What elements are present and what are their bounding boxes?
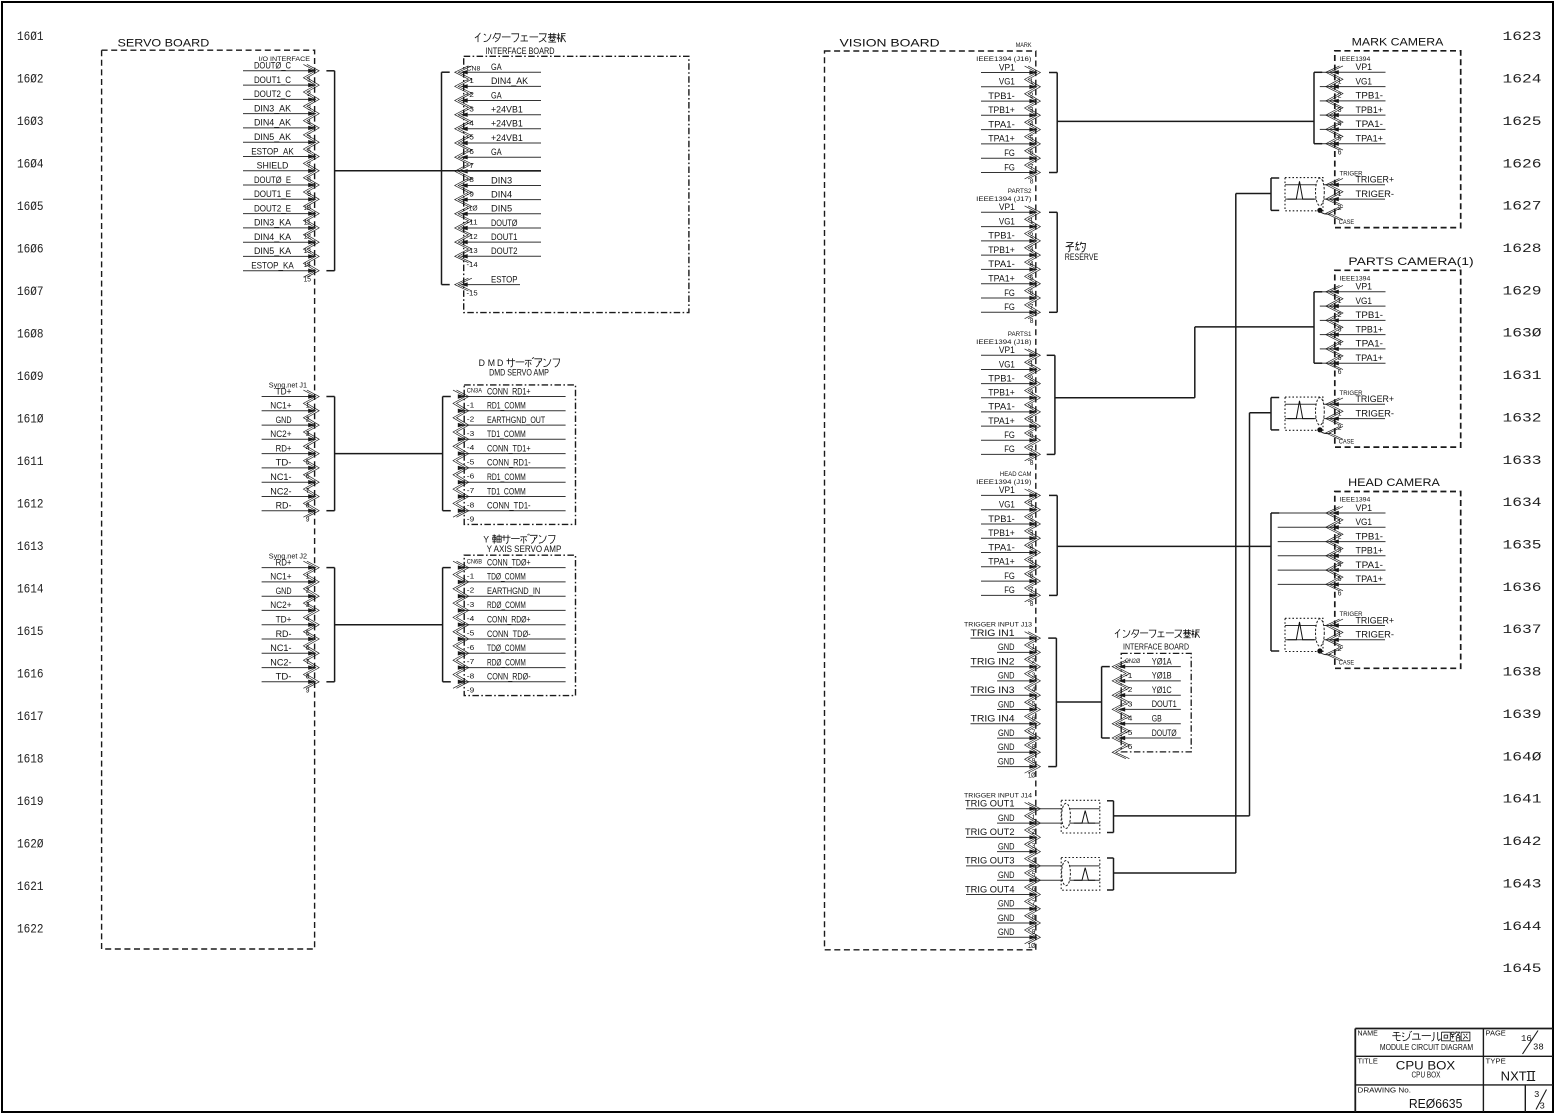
svg-text:TRIG IN1: TRIG IN1 <box>971 628 1015 638</box>
svg-text:-7: -7 <box>467 486 474 495</box>
svg-text:CONN_TD1+: CONN_TD1+ <box>487 443 531 453</box>
svg-text:GND: GND <box>998 671 1015 681</box>
svg-text:1Ø: 1Ø <box>1028 770 1036 779</box>
svg-text:1624: 1624 <box>1503 72 1542 87</box>
svg-text:TPA1+: TPA1+ <box>988 274 1015 284</box>
svg-text:GND: GND <box>998 728 1015 738</box>
svg-text:1642: 1642 <box>1503 834 1542 849</box>
svg-text:1636: 1636 <box>1503 580 1542 595</box>
svg-text:TPB1+: TPB1+ <box>988 388 1015 398</box>
svg-text:TPA1-: TPA1- <box>988 259 1015 269</box>
svg-text:TPA1+: TPA1+ <box>988 416 1015 426</box>
svg-text:GND: GND <box>276 586 292 596</box>
svg-text:CONN_TD1-: CONN_TD1- <box>487 501 531 511</box>
svg-text:VG1: VG1 <box>999 77 1015 87</box>
svg-text:TPB1+: TPB1+ <box>988 528 1015 538</box>
svg-text:TPA1+: TPA1+ <box>988 557 1015 567</box>
svg-text:CONN_RD1+: CONN_RD1+ <box>487 386 531 396</box>
svg-text:VP1: VP1 <box>1356 282 1373 293</box>
svg-text:NC2+: NC2+ <box>270 429 291 439</box>
svg-text:DOUT1_E: DOUT1_E <box>254 189 291 199</box>
svg-text:SERVO BOARD: SERVO BOARD <box>118 37 210 49</box>
svg-text:-7: -7 <box>467 161 474 170</box>
svg-text:-5: -5 <box>467 457 474 466</box>
svg-text:GND: GND <box>998 913 1015 923</box>
svg-text:HEAD CAM: HEAD CAM <box>1000 471 1032 478</box>
svg-text:GND: GND <box>998 899 1015 909</box>
svg-text:CN3A: CN3A <box>467 388 483 395</box>
svg-text:3: 3 <box>1534 1090 1539 1100</box>
svg-text:-8: -8 <box>467 500 474 509</box>
svg-text:-6: -6 <box>467 643 474 652</box>
svg-text:REØ6635: REØ6635 <box>1409 1096 1463 1111</box>
svg-text:-7: -7 <box>467 657 474 666</box>
svg-text:-1: -1 <box>467 76 474 85</box>
svg-text:D: D <box>479 358 485 368</box>
svg-text:FG: FG <box>1004 585 1015 595</box>
svg-text:16Ø7: 16Ø7 <box>17 284 44 299</box>
svg-text:3: 3 <box>1540 1102 1545 1112</box>
svg-text:-8: -8 <box>467 175 474 184</box>
svg-text:GA: GA <box>491 90 502 100</box>
svg-text:RD-: RD- <box>276 629 292 639</box>
svg-text:TPB1+: TPB1+ <box>1356 546 1384 557</box>
svg-text:TD-: TD- <box>276 672 292 682</box>
svg-text:TPB1-: TPB1- <box>988 91 1015 101</box>
svg-text:TD1_COMM: TD1_COMM <box>487 429 526 439</box>
svg-text:TPB1-: TPB1- <box>1356 531 1384 542</box>
svg-text:RD+: RD+ <box>276 443 292 453</box>
svg-text:MARK CAMERA: MARK CAMERA <box>1352 36 1445 48</box>
svg-text:DOUTØ_C: DOUTØ_C <box>254 61 292 71</box>
svg-text:TRIG OUT2: TRIG OUT2 <box>965 827 1015 837</box>
svg-text:DIN5: DIN5 <box>491 204 512 214</box>
svg-text:DOUTØ: DOUTØ <box>1152 728 1177 738</box>
svg-text:NC1-: NC1- <box>270 472 291 482</box>
svg-text:+24VB1: +24VB1 <box>491 133 523 143</box>
svg-text:EARTHGND_OUT: EARTHGND_OUT <box>487 415 546 425</box>
svg-text:TRIGER-: TRIGER- <box>1356 189 1395 200</box>
svg-text:1641: 1641 <box>1503 792 1542 807</box>
svg-text:TDØ_COMM: TDØ_COMM <box>487 572 526 582</box>
svg-text:D: D <box>497 358 503 368</box>
svg-text:TPA1-: TPA1- <box>1356 119 1384 130</box>
svg-text:1632: 1632 <box>1503 410 1542 425</box>
svg-text:38: 38 <box>1533 1043 1544 1053</box>
svg-text:DIN5_KA: DIN5_KA <box>254 246 291 256</box>
svg-text:1Ø: 1Ø <box>1028 941 1036 950</box>
svg-text:1634: 1634 <box>1503 495 1542 510</box>
svg-text:TPB1+: TPB1+ <box>988 245 1015 255</box>
svg-text:-1: -1 <box>467 571 474 580</box>
svg-text:DOUT1: DOUT1 <box>1152 699 1177 709</box>
svg-text:FG: FG <box>1004 148 1015 158</box>
svg-text:16Ø9: 16Ø9 <box>17 369 44 384</box>
svg-text:-9: -9 <box>467 686 474 695</box>
svg-text:NC1+: NC1+ <box>270 401 291 411</box>
svg-text:DOUT1: DOUT1 <box>491 232 518 242</box>
svg-text:DIN4_KA: DIN4_KA <box>254 232 291 242</box>
svg-text:GA: GA <box>491 62 502 72</box>
svg-text:-1: -1 <box>467 400 474 409</box>
svg-text:TPA1+: TPA1+ <box>1356 134 1384 145</box>
svg-text:163Ø: 163Ø <box>1503 326 1542 341</box>
svg-text:TPB1-: TPB1- <box>988 373 1015 383</box>
svg-text:-9: -9 <box>467 189 474 198</box>
svg-text:RD+: RD+ <box>276 557 292 567</box>
svg-text:TPB1-: TPB1- <box>1356 310 1384 321</box>
svg-text:NC2-: NC2- <box>270 486 291 496</box>
svg-text:DOUTØ_E: DOUTØ_E <box>254 175 291 185</box>
svg-text:1626: 1626 <box>1503 156 1542 171</box>
svg-text:FG: FG <box>1004 288 1015 298</box>
svg-text:MARK: MARK <box>1016 42 1032 49</box>
svg-text:FG: FG <box>1004 571 1015 581</box>
svg-text:VP1: VP1 <box>1356 503 1373 514</box>
svg-text:VP1: VP1 <box>999 345 1015 355</box>
svg-text:1618: 1618 <box>17 751 44 766</box>
svg-text:TPA1-: TPA1- <box>1356 560 1384 571</box>
svg-text:1635: 1635 <box>1503 538 1542 553</box>
svg-text:GND: GND <box>276 415 292 425</box>
svg-text:16Ø3: 16Ø3 <box>17 114 44 129</box>
svg-text:DOUT2_C: DOUT2_C <box>254 89 292 99</box>
svg-text:ESTOP_KA: ESTOP_KA <box>251 261 293 271</box>
svg-text:M: M <box>488 358 495 368</box>
svg-text:NXT: NXT <box>1501 1070 1527 1084</box>
svg-text:RD1_COMM: RD1_COMM <box>487 401 526 411</box>
svg-text:TPA1+: TPA1+ <box>1356 353 1384 364</box>
svg-text:TPB1-: TPB1- <box>988 231 1015 241</box>
svg-text:NC1-: NC1- <box>270 643 291 653</box>
svg-text:TRIG IN2: TRIG IN2 <box>971 657 1015 667</box>
svg-text:GND: GND <box>998 870 1015 880</box>
svg-text:VG1: VG1 <box>1356 517 1373 528</box>
svg-text:FG: FG <box>1004 162 1015 172</box>
svg-text:PAGE: PAGE <box>1486 1029 1506 1038</box>
svg-text:TDØ_COMM: TDØ_COMM <box>487 643 526 653</box>
svg-text:Y: Y <box>483 534 489 544</box>
svg-text:-14: -14 <box>467 260 478 269</box>
svg-text:-6: -6 <box>467 147 474 156</box>
svg-text:TRIG OUT4: TRIG OUT4 <box>965 884 1015 894</box>
svg-text:PARTS2: PARTS2 <box>1008 188 1032 195</box>
svg-text:16Ø1: 16Ø1 <box>17 29 44 44</box>
svg-text:VP1: VP1 <box>999 485 1015 495</box>
svg-text:TRIGER+: TRIGER+ <box>1356 394 1395 405</box>
svg-text:-3: -3 <box>467 600 474 609</box>
svg-text:Y AXIS SERVO AMP: Y AXIS SERVO AMP <box>487 544 562 554</box>
svg-text:TPA1+: TPA1+ <box>988 134 1015 144</box>
svg-text:1639: 1639 <box>1503 707 1542 722</box>
svg-text:16Ø5: 16Ø5 <box>17 199 44 214</box>
svg-text:TPA1-: TPA1- <box>988 119 1015 129</box>
svg-text:INTERFACE BOARD: INTERFACE BOARD <box>486 46 555 56</box>
svg-text:-2: -2 <box>467 415 474 424</box>
svg-text:-9: -9 <box>467 515 474 524</box>
svg-text:TYPE: TYPE <box>1486 1057 1506 1066</box>
svg-text:TD+: TD+ <box>276 386 292 396</box>
svg-text:CONN_RDØ+: CONN_RDØ+ <box>487 615 531 625</box>
svg-text:NAME: NAME <box>1358 1029 1378 1038</box>
svg-text:TRIG IN4: TRIG IN4 <box>971 714 1015 724</box>
svg-text:TPA1+: TPA1+ <box>1356 574 1384 585</box>
svg-text:1629: 1629 <box>1503 283 1542 298</box>
svg-text:DOUT2: DOUT2 <box>491 246 518 256</box>
svg-text:DMD SERVO AMP: DMD SERVO AMP <box>489 368 549 378</box>
svg-text:1645: 1645 <box>1503 961 1542 976</box>
svg-text:TRIGER-: TRIGER- <box>1356 630 1395 641</box>
svg-text:-5: -5 <box>467 629 474 638</box>
svg-text:DOUT2_E: DOUT2_E <box>254 203 291 213</box>
svg-text:+24VB1: +24VB1 <box>491 119 523 129</box>
svg-text:TRIG IN3: TRIG IN3 <box>971 685 1015 695</box>
svg-text:1631: 1631 <box>1503 368 1542 383</box>
svg-text:CN8: CN8 <box>467 65 481 72</box>
svg-text:YØ1A: YØ1A <box>1152 656 1172 666</box>
svg-text:1625: 1625 <box>1503 114 1542 129</box>
svg-text:TD+: TD+ <box>276 615 292 625</box>
svg-text:CASE: CASE <box>1339 660 1355 667</box>
svg-text:1613: 1613 <box>17 539 44 554</box>
svg-text:+24VB1: +24VB1 <box>491 105 523 115</box>
svg-text:GND: GND <box>998 742 1015 752</box>
svg-text:DOUTØ: DOUTØ <box>491 218 518 228</box>
svg-text:16Ø4: 16Ø4 <box>17 157 44 172</box>
svg-text:CN6B: CN6B <box>467 559 482 566</box>
svg-text:-2: -2 <box>467 586 474 595</box>
svg-text:1638: 1638 <box>1503 665 1542 680</box>
svg-text:1644: 1644 <box>1503 919 1542 934</box>
svg-text:VG1: VG1 <box>1356 76 1373 87</box>
svg-text:GB: GB <box>1152 714 1162 724</box>
svg-text:TITLE: TITLE <box>1358 1057 1378 1066</box>
svg-text:DIN4_AK: DIN4_AK <box>254 118 291 128</box>
svg-text:RESERVE: RESERVE <box>1065 252 1098 262</box>
svg-text:RD1_COMM: RD1_COMM <box>487 472 526 482</box>
svg-text:PARTS1: PARTS1 <box>1008 331 1032 338</box>
svg-text:TPA1-: TPA1- <box>988 542 1015 552</box>
svg-text:-3: -3 <box>467 429 474 438</box>
svg-text:PARTS CAMERA(1): PARTS CAMERA(1) <box>1348 256 1473 268</box>
svg-text:1615: 1615 <box>17 624 44 639</box>
svg-text:ESTOP_AK: ESTOP_AK <box>251 146 293 156</box>
svg-text:-4: -4 <box>467 614 474 623</box>
svg-text:GND: GND <box>998 642 1015 652</box>
svg-text:YØ1C: YØ1C <box>1152 685 1172 695</box>
svg-text:1643: 1643 <box>1503 876 1542 891</box>
svg-text:1637: 1637 <box>1503 622 1542 637</box>
svg-text:16Ø2: 16Ø2 <box>17 72 44 87</box>
svg-text:1619: 1619 <box>17 794 44 809</box>
svg-text:-15: -15 <box>467 288 478 297</box>
svg-text:-5: -5 <box>467 133 474 142</box>
svg-text:YØ1B: YØ1B <box>1152 671 1172 681</box>
svg-text:1623: 1623 <box>1503 29 1542 44</box>
svg-text:TRIG OUT1: TRIG OUT1 <box>965 799 1015 809</box>
svg-text:NC1+: NC1+ <box>270 572 291 582</box>
svg-text:TPA1-: TPA1- <box>1356 339 1384 350</box>
svg-text:CONN_TDØ+: CONN_TDØ+ <box>487 557 531 567</box>
svg-text:161Ø: 161Ø <box>17 412 44 427</box>
svg-text:CONN_RD1-: CONN_RD1- <box>487 458 531 468</box>
svg-text:TPB1+: TPB1+ <box>1356 105 1384 116</box>
svg-text:TRIGER+: TRIGER+ <box>1356 615 1395 626</box>
svg-text:DIN4_AK: DIN4_AK <box>491 76 528 86</box>
svg-text:1616: 1616 <box>17 666 44 681</box>
svg-text:FG: FG <box>1004 444 1015 454</box>
svg-text:GND: GND <box>998 699 1015 709</box>
svg-text:GA: GA <box>491 147 502 157</box>
svg-text:1627: 1627 <box>1503 199 1542 214</box>
svg-text:RDØ_COMM: RDØ_COMM <box>487 600 526 610</box>
svg-text:1628: 1628 <box>1503 241 1542 256</box>
svg-text:GND: GND <box>998 756 1015 766</box>
svg-text:TRIG OUT3: TRIG OUT3 <box>965 856 1015 866</box>
svg-text:FG: FG <box>1004 430 1015 440</box>
svg-text:-6: -6 <box>467 472 474 481</box>
svg-text:VP1: VP1 <box>1356 62 1373 73</box>
svg-text:VG1: VG1 <box>999 216 1015 226</box>
svg-text:INTERFACE BOARD: INTERFACE BOARD <box>1123 642 1189 652</box>
svg-text:TD-: TD- <box>276 458 292 468</box>
svg-text:TPA1-: TPA1- <box>988 402 1015 412</box>
svg-text:GND: GND <box>998 813 1015 823</box>
svg-text:1621: 1621 <box>17 879 44 894</box>
svg-text:FG: FG <box>1004 302 1015 312</box>
svg-text:164Ø: 164Ø <box>1503 749 1542 764</box>
svg-text:NC2+: NC2+ <box>270 600 291 610</box>
svg-text:TRIGER-: TRIGER- <box>1356 408 1395 419</box>
svg-text:DRAWING No.: DRAWING No. <box>1358 1086 1412 1095</box>
svg-text:MODULE CIRCUIT DIAGRAM: MODULE CIRCUIT DIAGRAM <box>1380 1042 1473 1052</box>
svg-text:GND: GND <box>998 841 1015 851</box>
svg-text:16Ø8: 16Ø8 <box>17 327 44 342</box>
svg-text:CONN_TDØ-: CONN_TDØ- <box>487 629 531 639</box>
svg-text:CPU BOX: CPU BOX <box>1412 1071 1441 1080</box>
svg-text:1614: 1614 <box>17 581 44 596</box>
svg-text:DIN5_AK: DIN5_AK <box>254 132 291 142</box>
svg-text:1612: 1612 <box>17 497 44 512</box>
svg-text:TRIGER+: TRIGER+ <box>1356 175 1395 186</box>
svg-text:CASE: CASE <box>1339 438 1355 445</box>
svg-text:TPB1+: TPB1+ <box>988 105 1015 115</box>
svg-text:CASE: CASE <box>1339 219 1355 226</box>
svg-text:VP1: VP1 <box>999 62 1015 72</box>
svg-text:SHIELD: SHIELD <box>257 161 289 171</box>
svg-text:16Ø6: 16Ø6 <box>17 242 44 257</box>
svg-text:CONN_RDØ-: CONN_RDØ- <box>487 672 531 682</box>
svg-text:VP1: VP1 <box>999 202 1015 212</box>
svg-text:-4: -4 <box>467 119 474 128</box>
svg-text:DIN4: DIN4 <box>491 189 512 199</box>
svg-text:HEAD CAMERA: HEAD CAMERA <box>1348 477 1441 489</box>
svg-text:-3: -3 <box>467 104 474 113</box>
svg-text:1611: 1611 <box>17 454 44 469</box>
svg-text:TPB1-: TPB1- <box>1356 91 1384 102</box>
svg-text:RDØ_COMM: RDØ_COMM <box>487 657 526 667</box>
svg-text:162Ø: 162Ø <box>17 836 44 851</box>
svg-text:ESTOP: ESTOP <box>491 274 518 284</box>
svg-text:GND: GND <box>998 927 1015 937</box>
svg-text:DIN3: DIN3 <box>491 175 512 185</box>
svg-text:TPB1+: TPB1+ <box>1356 324 1384 335</box>
svg-text:VG1: VG1 <box>999 359 1015 369</box>
svg-text:VISION BOARD: VISION BOARD <box>840 38 940 50</box>
svg-text:-4: -4 <box>467 443 474 452</box>
svg-text:VG1: VG1 <box>1356 296 1373 307</box>
svg-text:RD-: RD- <box>276 501 292 511</box>
svg-text:EARTHGND_IN: EARTHGND_IN <box>487 586 540 596</box>
svg-text:TD1_COMM: TD1_COMM <box>487 486 526 496</box>
svg-text:1617: 1617 <box>17 709 44 724</box>
svg-text:1633: 1633 <box>1503 453 1542 468</box>
svg-text:DIN3_AK: DIN3_AK <box>254 103 291 113</box>
svg-text:VG1: VG1 <box>999 500 1015 510</box>
svg-text:TPB1-: TPB1- <box>988 514 1015 524</box>
svg-text:NC2-: NC2- <box>270 657 291 667</box>
svg-text:-2: -2 <box>467 90 474 99</box>
svg-text:DIN3_KA: DIN3_KA <box>254 218 291 228</box>
svg-text:1622: 1622 <box>17 921 44 936</box>
svg-text:-8: -8 <box>467 671 474 680</box>
svg-text:DOUT1_C: DOUT1_C <box>254 75 292 85</box>
